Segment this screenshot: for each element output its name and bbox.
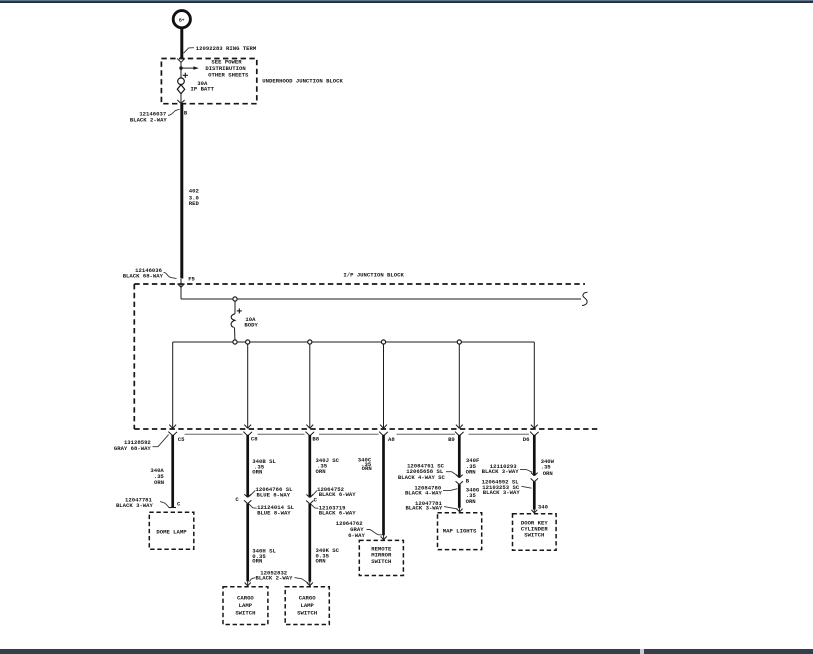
wire label 340C .35 ORN [358,456,372,472]
svg-text:MAP LIGHTS: MAP LIGHTS [443,528,477,535]
svg-text:ORN: ORN [252,558,262,565]
connector 12146036 BLACK 68-WAY [123,267,177,279]
wire from fuse to block exit [180,94,182,104]
68-way connector face line segment 1 [185,433,243,435]
plus polarity mark at breaker [237,308,242,313]
wire 340G lower segment to map lights [458,484,461,508]
svg-text:ORN: ORN [362,465,372,472]
wire label 340G .35 ORN [466,487,480,505]
svg-text:340: 340 [538,503,549,510]
connector half fork upper C8 wire [244,494,251,497]
svg-text:F5: F5 [188,275,195,282]
plus polarity mark [183,73,188,78]
remote mirror switch title [371,546,392,565]
wire label 340B SL .35 ORN [252,458,276,475]
wire from tap to fuse [180,68,182,78]
node B9 branch [457,340,461,344]
svg-text:BODY: BODY [244,322,258,329]
svg-text:BLACK 2-WAY: BLACK 2-WAY [256,575,294,582]
branch wire to pin C5 [169,342,176,428]
svg-text:6-WAY: 6-WAY [348,532,365,539]
connector half fork lower B8 wire [306,501,313,504]
svg-text:C8: C8 [251,436,258,443]
breaker value label 10A BODY [244,316,258,329]
dome lamp box [149,512,194,549]
wire label 340J SC .35 ORN [316,457,340,475]
exit arrow at bottom of underhood block [177,100,184,104]
wire label 340F .35 ORN [466,457,480,475]
connector 12047781 BLACK 3-WAY at dome lamp [116,497,169,510]
wire label 340W .35 ORN [541,458,555,477]
connector 12110293 BLACK 3-WAY [482,463,533,475]
top window chrome bar [0,0,813,3]
svg-text:BLACK 6-WAY: BLACK 6-WAY [319,510,357,517]
68-way connector face line segment 2 [258,433,305,435]
fuse F-IPBATT 30A symbol [177,78,184,94]
svg-text:BLACK 4-WAY SC: BLACK 4-WAY SC [398,474,446,481]
off-page break squiggle [582,292,588,305]
map lights box [438,513,482,550]
arrow into map lights [456,508,462,512]
connector 13128592 GRAY 68-WAY label [114,435,169,452]
connector 12084761 SC 12065658 SL BLACK 4-WAY SC [398,463,458,481]
cargo lamp switch box 1 [223,587,268,625]
connector half fork lower B9 wire [456,481,463,484]
svg-text:BLACK 68-WAY: BLACK 68-WAY [123,273,164,280]
wire 340K SC lower segment to cargo lamp switch 2 [308,504,311,582]
connector 12052832 BLACK 2-WAY shared label [250,569,309,583]
connector 12064766 SL BLUE 8-WAY [249,486,293,499]
wire entry arrow into I/P block at F5 [177,279,184,299]
wire from breaker to lamp bus [234,327,237,342]
lamp feed bus inside I/P block [173,341,535,343]
svg-text:BLACK 3-WAY: BLACK 3-WAY [405,505,443,512]
wire 340F upper segment [458,435,461,478]
connector 12084780 BLACK 4-WAY [405,485,457,497]
note SEE POWER DISTRIBUTION OTHER SHEETS [205,58,249,78]
svg-text:B: B [184,109,188,116]
svg-text:C: C [314,497,318,504]
connector fork at pin C8 [243,432,252,436]
wire label 340A .35 ORN [150,467,164,486]
node J1 on feed bus [233,297,237,301]
svg-text:UNDERHOOD JUNCTION BLOCK: UNDERHOOD JUNCTION BLOCK [262,78,343,85]
svg-text:BLUE 8-WAY: BLUE 8-WAY [257,510,291,517]
svg-text:BLACK 2-WAY: BLACK 2-WAY [130,117,168,124]
wire entry arrow into underhood block [177,59,185,69]
wire 340J SC upper segment [308,435,311,498]
svg-text:ORN: ORN [466,498,476,505]
svg-text:LAMP: LAMP [239,602,253,609]
68-way connector face line segment 4 [397,433,456,435]
svg-text:OTHER SHEETS: OTHER SHEETS [208,71,249,78]
branch wire to pin D6 [531,342,538,428]
connector fork at pin D6 [530,432,539,436]
arrow into door key cylinder switch [531,509,537,513]
svg-text:B: B [466,477,470,484]
arrow into cargo lamp switch 2 [307,581,313,585]
branch wire to pin A8 [380,344,387,428]
cargo lamp switch 1 title [235,594,255,616]
svg-text:ORN: ORN [252,468,262,475]
wire from B+ to underhood junction block [180,28,183,59]
node tap to power distribution [179,66,182,69]
wire 340 lower segment to door key cylinder switch [533,482,536,510]
68-way connector face line segment 3 [319,433,379,435]
remote mirror switch box [359,540,403,575]
svg-text:SWITCH: SWITCH [524,532,544,539]
svg-text:A8: A8 [388,436,395,443]
svg-text:BLACK 3-WAY: BLACK 3-WAY [116,502,154,509]
svg-text:ORN: ORN [543,470,553,477]
connector half fork upper B8 wire [306,494,313,497]
connector half fork lower D6 wire [531,478,538,481]
wire 340C ORN to remote mirror switch [382,435,385,536]
connector fork at pin A8 [379,432,388,436]
node C8 branch [246,340,250,344]
connector 12064752 BLACK 6-WAY [311,486,356,498]
svg-text:LAMP: LAMP [300,602,314,609]
node at breaker on lamp bus [233,340,237,344]
svg-text:RED: RED [189,200,200,207]
svg-text:BLACK 3-WAY: BLACK 3-WAY [482,468,520,475]
svg-text:BLACK 6-WAY: BLACK 6-WAY [319,491,357,498]
68-way connector face line segment 5 [469,433,530,435]
svg-text:ORN: ORN [154,479,164,486]
svg-text:BLUE 8-WAY: BLUE 8-WAY [257,491,291,498]
circuit breaker CB-BODY symbol [231,314,235,328]
svg-text:ORN: ORN [316,468,326,475]
underhood junction block box U1 [161,59,256,104]
wire label 402 3.0 RED [189,187,200,207]
connector 12064762 GRAY 6-WAY [336,520,382,539]
fuse value label 30A IP BATT [191,80,215,92]
svg-text:ORN: ORN [316,557,326,564]
arrow into remote mirror switch [381,535,387,540]
connector 12064592 SL 12103253 SC BLACK 3-WAY [482,479,532,496]
arrow to power distribution other sheets [181,66,199,69]
svg-text:I/P JUNCTION BLOCK: I/P JUNCTION BLOCK [343,272,404,279]
dome lamp connector base tick [169,507,177,509]
svg-text:C5: C5 [178,436,185,443]
node A8 branch [381,340,385,344]
door key cylinder switch box [513,514,557,551]
connector 12047781 BLACK 3-WAY at map lights [405,500,457,512]
svg-text:D6: D6 [523,436,530,443]
branch wire to pin B8 [306,344,313,428]
svg-text:BLACK 3-WAY: BLACK 3-WAY [483,489,521,496]
branch wire to pin C8 [244,344,251,428]
connector 12146037 BLACK 2-WAY [130,109,180,123]
cargo lamp switch box 2 [285,587,329,625]
svg-text:SWITCH: SWITCH [235,610,255,617]
cargo lamp switch 2 title [297,594,317,616]
svg-text:BLACK 4-WAY: BLACK 4-WAY [405,489,443,496]
door key cylinder switch title [521,520,548,539]
svg-text:GRAY 68-WAY: GRAY 68-WAY [114,445,152,452]
wire 340H SL lower segment to cargo lamp switch [246,503,249,581]
svg-text:IP BATT: IP BATT [191,86,215,93]
connector half fork upper B9 wire [456,475,463,478]
svg-text:B+: B+ [179,17,185,23]
wire label 340H SL 0.35 ORN [252,548,276,565]
connector fork at pin B9 [455,432,464,436]
wire 340A ORN to dome lamp [171,435,174,508]
connector 12124014 SL BLUE 8-WAY [249,504,295,517]
svg-text:CARGO: CARGO [299,594,316,601]
wire 402 RED from underhood block to I/P block [180,104,183,279]
svg-text:CARGO: CARGO [237,594,254,601]
svg-text:C: C [177,500,181,507]
svg-text:SWITCH: SWITCH [371,558,391,565]
connector half fork upper D6 wire [531,473,538,476]
svg-text:B8: B8 [312,436,319,443]
connector 12092283 RING TERM label [184,45,257,53]
connector half fork lower C8 wire [244,500,251,503]
wire from node J1 to circuit breaker [234,301,236,314]
connector 12103719 BLACK 6-WAY [311,504,356,516]
svg-text:12092283 RING TERM: 12092283 RING TERM [196,45,257,52]
connector fork at pin C5 [168,432,177,436]
arrow into cargo lamp switch 1 [245,581,251,586]
internal feed bus wire [181,298,581,300]
wire 340B SL upper segment [246,435,249,497]
svg-text:402: 402 [189,187,200,194]
battery terminal B+ [173,11,190,28]
svg-text:B9: B9 [448,436,455,443]
connector fork at pin B8 [306,432,315,436]
svg-text:C: C [235,496,239,503]
wire 340W upper segment [533,435,536,476]
branch wire to pin B9 [456,344,463,428]
node B8 branch [308,340,312,344]
bottom window chrome bar [0,649,813,654]
svg-text:ORN: ORN [466,469,476,476]
wire label 340K SC 0.35 ORN [316,547,340,565]
svg-text:SWITCH: SWITCH [297,610,317,617]
I/P junction block box U2 [134,284,598,429]
svg-text:DOME LAMP: DOME LAMP [156,528,187,535]
bottom bar separator [640,649,644,654]
